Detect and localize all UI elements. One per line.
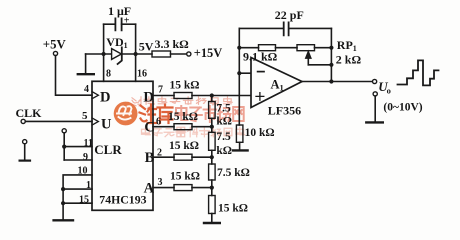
svg-text:7: 7 — [158, 84, 163, 95]
ground output — [366, 96, 383, 122]
resistor 15k row A — [174, 185, 192, 191]
junction ladder node A — [210, 186, 214, 190]
svg-text:VD1: VD1 — [106, 35, 127, 50]
svg-text:RP1: RP1 — [337, 38, 357, 53]
resistor 15k ladder bottom — [209, 196, 216, 214]
junction diode anode — [102, 52, 106, 56]
label output range — [383, 102, 422, 114]
resistor 7.5k upper — [209, 102, 216, 119]
terminal CLK return — [23, 140, 27, 144]
wire minus input to op-amp — [239, 72, 251, 74]
wire feedback middle row right — [315, 47, 332, 49]
capacitor C1 1uF wire right — [122, 23, 136, 25]
junction ladder node D — [210, 93, 214, 97]
label LF356 — [268, 104, 301, 118]
waveform staircase — [398, 60, 439, 85]
capacitor C2 22pF plates — [284, 22, 289, 35]
IC U1 74HC193 body — [92, 81, 153, 210]
label 15k ladder bottom — [218, 202, 248, 214]
label pin 1 — [86, 180, 91, 191]
svg-text:5: 5 — [82, 110, 88, 122]
label 15k row B — [169, 140, 199, 152]
wire to pin 1 — [63, 188, 92, 190]
svg-text:kΩ: kΩ — [216, 145, 232, 157]
label pin 6 — [156, 117, 161, 128]
resistor 15k row C — [174, 124, 192, 130]
svg-text:15 kΩ: 15 kΩ — [170, 80, 200, 92]
svg-text:7.5 kΩ: 7.5 kΩ — [217, 167, 250, 179]
wire ladder rail segment 3 — [211, 150, 213, 164]
capacitor C2 22pF wires — [239, 27, 331, 29]
svg-text:LF356: LF356 — [268, 104, 301, 118]
junction pin 1 — [61, 187, 65, 191]
svg-text:9.1 kΩ: 9.1 kΩ — [243, 50, 278, 64]
label D down input — [100, 89, 110, 105]
terminal +15V — [187, 52, 191, 56]
wire pin 6 row — [153, 126, 212, 128]
junction diode cathode 5V node — [134, 52, 138, 56]
terminal CLK — [21, 119, 25, 123]
label pin 3 — [158, 177, 163, 188]
label 22 pF — [275, 8, 304, 22]
label 7.5k lower — [217, 167, 250, 179]
svg-text:8: 8 — [106, 69, 111, 80]
svg-text:o: o — [387, 85, 391, 95]
ground 10k — [233, 142, 248, 150]
svg-text:16: 16 — [137, 69, 147, 80]
svg-text:74HC193: 74HC193 — [99, 192, 146, 206]
label +5V — [43, 37, 67, 51]
label 9.1 kOhm — [243, 50, 278, 64]
wire ladder rail segment 1 — [211, 96, 213, 102]
junction wiper tap — [329, 63, 333, 67]
svg-text:1 μF: 1 μF — [108, 4, 131, 18]
wire between 9.1k and RP1 — [276, 47, 298, 49]
terminal Uo return — [373, 92, 377, 96]
wire pin 3 row — [153, 187, 212, 189]
svg-text:3.3 kΩ: 3.3 kΩ — [155, 37, 190, 51]
svg-text:CLK: CLK — [16, 106, 43, 120]
wire resistor to +15V terminal — [171, 53, 187, 55]
junction minus input — [237, 71, 241, 75]
label 7.5k middle — [216, 131, 232, 157]
label CLK — [16, 106, 43, 120]
label 1uF — [108, 4, 131, 18]
watermark logo circle — [114, 102, 138, 126]
label 15k row D — [170, 80, 200, 92]
label +15V — [194, 46, 222, 60]
svg-text:22 pF: 22 pF — [275, 8, 304, 22]
zener diode VD1 — [112, 47, 122, 64]
wire to pin 9 — [64, 159, 92, 161]
wire cap right vertical to diode row and pin 16 — [135, 24, 137, 81]
svg-text:U: U — [101, 116, 112, 132]
junction pin 15 — [61, 201, 65, 205]
wire feedback middle row left — [239, 47, 258, 49]
wire cap left vertical to diode row and pin 8 — [103, 24, 105, 81]
resistor 15k row B — [174, 154, 192, 160]
svg-text:15 kΩ: 15 kΩ — [218, 202, 248, 214]
ground CLK return — [20, 144, 30, 161]
wire minus input net vertical — [238, 28, 240, 125]
junction feedback right — [329, 46, 333, 50]
watermark text weiku — [140, 105, 173, 124]
wire ladder rail segment 2 — [211, 118, 213, 132]
svg-text:D: D — [100, 89, 110, 105]
label pin 10 — [78, 165, 88, 176]
label pin 9 — [83, 152, 88, 163]
label RP1 — [337, 38, 357, 53]
watermark small upper line — [131, 97, 232, 108]
svg-text:3: 3 — [158, 177, 163, 188]
wire diode row — [86, 53, 136, 55]
label pin 5 — [82, 110, 88, 122]
svg-text:(0~10V): (0~10V) — [383, 102, 422, 114]
pin 5 clock chevron — [92, 118, 98, 125]
svg-text:kΩ: kΩ — [216, 115, 232, 127]
wire wiper to right rail — [308, 64, 331, 66]
svg-text:+15V: +15V — [194, 46, 222, 60]
junction ladder node B — [210, 155, 214, 159]
label pin 15 — [79, 195, 89, 206]
label 10k — [245, 127, 275, 139]
label 15k row C — [168, 111, 198, 123]
svg-text:9: 9 — [83, 152, 88, 163]
svg-text:+5V: +5V — [43, 37, 67, 51]
terminal CLR — [62, 129, 66, 133]
label output B — [145, 150, 155, 166]
op-amp minus sign — [258, 71, 264, 73]
svg-text:CLR: CLR — [94, 142, 122, 157]
label 3.3 kOhm — [155, 37, 190, 51]
label pin 16 — [137, 69, 147, 80]
label output C — [144, 119, 154, 135]
wire 5V node to resistor — [136, 53, 152, 55]
label A1 — [271, 77, 284, 92]
svg-text:D: D — [143, 89, 153, 105]
label pin 2 — [157, 148, 162, 159]
junction ladder node C — [210, 125, 214, 129]
svg-text:A: A — [144, 181, 155, 197]
potentiometer RP1 body — [297, 45, 315, 51]
ground ladder — [204, 214, 220, 224]
wire CLK to pin 5 — [25, 120, 92, 122]
label output A — [144, 181, 155, 197]
label 15k row A — [170, 171, 200, 183]
label VD1 — [106, 35, 127, 50]
label pin 8 — [106, 69, 111, 80]
wire +5V to pin 4 — [56, 56, 93, 96]
capacitor C1 1uF plates — [115, 18, 121, 30]
wire CLR bus vertical — [63, 133, 65, 160]
junction feedback left — [237, 46, 241, 50]
op-amp plus sign — [256, 93, 264, 101]
watermark text dianzishichangwang — [176, 106, 244, 122]
svg-text:15 kΩ: 15 kΩ — [170, 171, 200, 183]
junction output feedback tap — [329, 79, 333, 83]
ground near diode anode — [78, 54, 94, 74]
label pin 4 — [84, 84, 89, 95]
label Uo — [378, 79, 391, 95]
label 74HC193 — [99, 192, 146, 206]
label 5V node — [139, 40, 154, 54]
wire pin 7 to ladder and op-amp plus input — [153, 95, 251, 97]
resistor 9.1k — [259, 45, 276, 51]
resistor 10k — [236, 125, 243, 142]
watermark small lower line — [142, 127, 245, 137]
svg-text:7.5: 7.5 — [216, 102, 231, 114]
svg-text:7.5: 7.5 — [216, 131, 231, 143]
label 7.5k upper — [216, 102, 232, 127]
wire to pin 15 — [63, 202, 92, 204]
potentiometer RP1 wiper arrow — [305, 51, 311, 65]
wire pin 2 row — [153, 156, 212, 158]
wire feedback right vertical — [330, 28, 332, 81]
terminal +5V — [53, 51, 57, 55]
wire to pin 11 — [64, 146, 92, 148]
label pin 7 — [158, 84, 163, 95]
svg-text:4: 4 — [84, 84, 89, 95]
wire ladder rail segment 4 — [211, 180, 213, 196]
terminal Uo — [373, 79, 377, 83]
capacitor C1 1uF wire left — [104, 23, 116, 25]
resistor 3.3k — [152, 51, 171, 57]
svg-text:15 kΩ: 15 kΩ — [169, 140, 199, 152]
label CLR — [94, 142, 122, 157]
label 2 kOhm — [336, 53, 362, 67]
label U up input — [101, 116, 112, 132]
svg-text:2 kΩ: 2 kΩ — [336, 53, 362, 67]
wire op-amp output — [302, 81, 373, 83]
ground IC control pins — [54, 219, 73, 221]
resistor 7.5k middle — [209, 132, 216, 150]
resistor 7.5k lower — [209, 164, 216, 180]
svg-text:10 kΩ: 10 kΩ — [245, 127, 275, 139]
junction pin 11 — [62, 145, 66, 149]
label output D — [143, 89, 153, 105]
pin 4 clock chevron — [92, 92, 98, 99]
capacitor C1 polarity plus — [124, 16, 130, 27]
svg-text:15 kΩ: 15 kΩ — [168, 111, 198, 123]
resistor 15k row D — [174, 93, 192, 99]
wire to pin 10 — [63, 175, 92, 219]
label pin 11 — [84, 138, 93, 149]
op-amp A1 triangle — [251, 58, 302, 108]
